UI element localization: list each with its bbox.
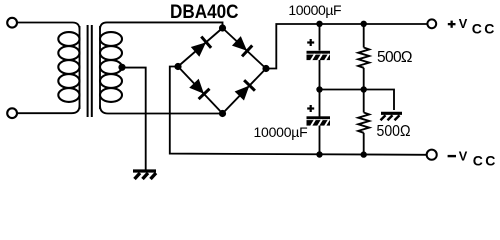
wire bridge DC+ to +VCC rail bbox=[266, 24, 427, 69]
diode D1 (left to top) bbox=[190, 37, 211, 58]
svg-text:V: V bbox=[459, 16, 468, 31]
node bridge DC+ (right) bbox=[262, 65, 269, 72]
wire secondary top to bridge AC1 bbox=[100, 22, 223, 29]
svg-text:CC: CC bbox=[472, 20, 497, 36]
svg-text:500Ω: 500Ω bbox=[377, 123, 411, 140]
node R mid bbox=[361, 86, 367, 92]
label +VCC bbox=[448, 23, 456, 25]
node R1 top bbox=[361, 21, 367, 27]
wire secondary bottom to bridge AC2 bbox=[100, 106, 223, 114]
wire bridge DC- to -VCC rail bbox=[170, 67, 427, 155]
node C1 top bbox=[316, 21, 322, 27]
wire capacitor branch upper bbox=[319, 24, 321, 51]
wire resistor branch upper bbox=[363, 24, 365, 48]
svg-text:10000µF: 10000µF bbox=[254, 124, 308, 140]
terminal J2 (AC input bottom) bbox=[7, 108, 17, 118]
wire J1 to primary top bbox=[17, 23, 79, 30]
terminal -VCC bbox=[427, 150, 437, 160]
wire resistor branch middle bbox=[363, 68, 365, 113]
terminal +VCC bbox=[427, 19, 436, 28]
ground (center tap) bbox=[133, 171, 156, 179]
wire capacitor branch lower bbox=[319, 126, 321, 155]
wire center tap to ground bbox=[122, 68, 146, 170]
label -VCC bbox=[448, 155, 456, 157]
transformer T1 primary winding loops bbox=[58, 32, 79, 102]
capacitor C1 plus sign bbox=[307, 39, 314, 46]
diode D3 (left to bottom) bbox=[189, 78, 210, 99]
transformer T1 secondary winding loops bbox=[100, 32, 122, 102]
node center tap bbox=[118, 64, 125, 71]
node bridge AC2 (bottom) bbox=[219, 110, 226, 117]
svg-text:CC: CC bbox=[473, 153, 498, 169]
node C mid bbox=[316, 86, 322, 92]
wire primary vertical bbox=[79, 26, 81, 109]
transformer T1 core bbox=[88, 25, 92, 117]
capacitor C2 plates bbox=[307, 116, 331, 126]
capacitor C2 plus sign bbox=[307, 105, 314, 112]
node C2 bottom bbox=[316, 151, 322, 157]
capacitor C1 plates bbox=[307, 51, 331, 61]
wire primary bottom to J2 bbox=[17, 106, 79, 114]
svg-text:V: V bbox=[459, 148, 468, 163]
svg-text:10000µF: 10000µF bbox=[288, 2, 341, 18]
node R2 bottom bbox=[361, 151, 367, 157]
diode D2 (top to right) bbox=[231, 35, 252, 56]
ground (mid rail) bbox=[381, 113, 403, 120]
wire capacitor branch middle bbox=[319, 60, 321, 117]
svg-text:500Ω: 500Ω bbox=[377, 49, 413, 66]
terminal J1 (AC input top) bbox=[7, 18, 17, 28]
wire secondary vertical bbox=[99, 26, 101, 109]
svg-text:DBA40C: DBA40C bbox=[170, 2, 239, 23]
node bridge AC1 (top) bbox=[219, 24, 226, 31]
node bridge DC- (left) bbox=[174, 63, 181, 70]
wire mid rail to ground bbox=[320, 90, 395, 111]
bridge rectifier DBA40C edges bbox=[178, 28, 266, 114]
resistor R1 bbox=[358, 48, 369, 68]
wire resistor branch lower bbox=[363, 133, 365, 155]
resistor R2 bbox=[358, 113, 369, 133]
diode D4 (bottom to right) bbox=[234, 80, 255, 101]
